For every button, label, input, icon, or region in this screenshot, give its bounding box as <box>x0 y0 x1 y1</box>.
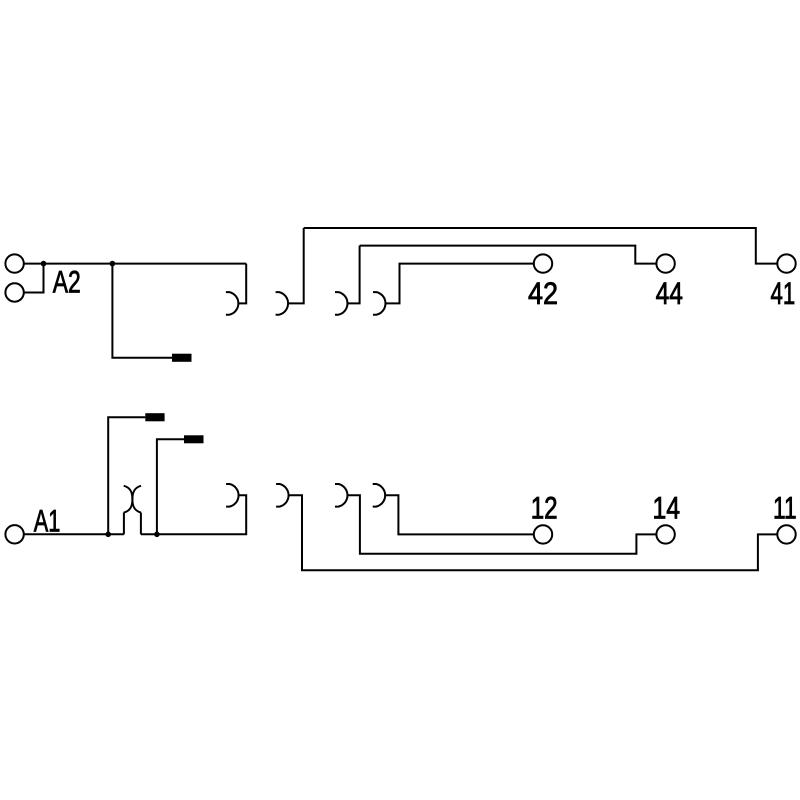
svg-text:14: 14 <box>653 490 681 526</box>
terminal circle 42 <box>534 254 552 272</box>
socket contact arc8 <box>373 484 385 507</box>
wire A2 upper stub <box>24 263 44 265</box>
wire arc2 up to rail 41 <box>288 228 304 303</box>
wire branch up to module 1 <box>108 417 145 534</box>
svg-text:12: 12 <box>531 490 558 526</box>
socket contact arc5 <box>226 484 238 507</box>
socket contact arc2 <box>276 292 288 315</box>
relay coil right stub <box>140 513 142 535</box>
wire A2 lower stub up to rail <box>24 264 44 293</box>
wire arc7 to terminal 14 <box>348 495 657 554</box>
svg-text:A1: A1 <box>34 502 61 538</box>
wire A1 to coil <box>24 533 124 535</box>
terminal circle 12 <box>534 525 552 543</box>
wire rail down to arc1 <box>238 264 246 304</box>
socket contact arc3 <box>335 292 347 315</box>
wire arc3 up to rail 44 <box>348 246 360 304</box>
terminal circle 14 <box>656 525 674 543</box>
relay coil curve A <box>124 486 141 513</box>
wire rail to terminal 41 <box>304 228 778 264</box>
wire arc4 to terminal 42 <box>386 264 535 304</box>
socket contact arc7 <box>335 484 347 507</box>
terminal circle A2 lower <box>5 283 23 301</box>
node junction dot branch top <box>110 261 116 267</box>
socket contact arc6 <box>276 484 288 507</box>
terminal circle 11 <box>777 525 795 543</box>
svg-text:44: 44 <box>656 275 683 311</box>
terminal circle A2 upper <box>5 254 23 272</box>
terminal circle A1 <box>5 525 23 543</box>
svg-text:11: 11 <box>773 490 797 526</box>
terminal circle 44 <box>656 254 674 272</box>
socket contact arc4 <box>373 292 385 315</box>
socket contact arc1 <box>226 292 238 315</box>
wire branch down to module <box>112 264 172 358</box>
wire branch up to module 2 <box>157 439 184 534</box>
relay coil left stub <box>123 513 125 535</box>
terminal circle 41 <box>777 254 795 272</box>
module plug block bottom 2 <box>184 435 204 443</box>
wire rail to terminal 44 <box>360 246 657 264</box>
module plug block top <box>172 354 192 362</box>
node junction dot A1 right <box>154 532 160 538</box>
wire arc8 to terminal 12 <box>385 495 534 534</box>
module plug block bottom 1 <box>145 413 164 421</box>
node junction dot A1 left <box>105 532 111 538</box>
svg-text:41: 41 <box>771 275 796 311</box>
wire arc6 to terminal 11 <box>289 495 778 570</box>
node junction dot A2 <box>41 261 47 267</box>
svg-text:A2: A2 <box>53 263 81 299</box>
relay coil curve B <box>124 486 141 513</box>
svg-text:42: 42 <box>528 275 558 311</box>
wire A2 rail <box>44 263 247 265</box>
wire coil to arc5 <box>141 495 246 534</box>
